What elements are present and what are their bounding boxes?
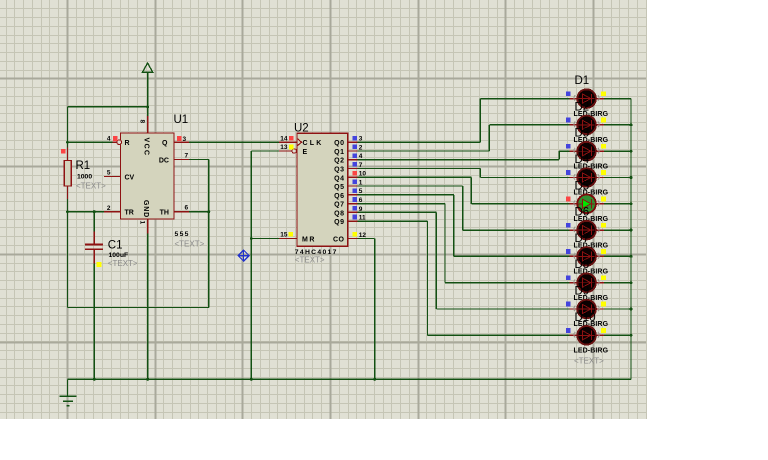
LED D8 anode state square xyxy=(566,275,571,280)
wire Q2 to D3 xyxy=(357,151,569,160)
U1 pin R state square xyxy=(113,136,118,141)
U2 pin number 1 xyxy=(359,179,363,186)
wire D5 cathode to bus xyxy=(604,202,633,205)
U2 pin name Q3 xyxy=(334,167,344,174)
C1 label xyxy=(108,239,123,251)
U2 pin CLK state square xyxy=(289,136,294,141)
LED D5 refdes label xyxy=(575,180,590,192)
U2 pin Q9 stub xyxy=(348,220,358,222)
U1 pin number 1 rotated xyxy=(139,221,146,225)
U2 pin name Q6 xyxy=(334,193,344,200)
U1 pin name GND rotated xyxy=(142,200,149,218)
U1 pin name VCC rotated xyxy=(143,138,150,157)
U2 pin number 5 xyxy=(359,188,363,195)
svg-text:<TEXT>: <TEXT> xyxy=(175,240,205,249)
U2 pin number 6 xyxy=(359,197,363,204)
svg-text:TH: TH xyxy=(160,210,169,217)
wire Q6 to D7 xyxy=(357,195,569,257)
LED D3 refdes label xyxy=(575,128,590,140)
U2 pin number 12 xyxy=(359,232,367,239)
wire reset net from left vertical to U1 pin R xyxy=(68,141,118,143)
U2 pin Q0 state square xyxy=(352,136,357,141)
svg-text:Q4: Q4 xyxy=(334,175,344,182)
junction TR node xyxy=(66,210,69,213)
R1 label xyxy=(76,160,91,172)
svg-text:LED-BIRG: LED-BIRG xyxy=(574,348,609,355)
wire LED cathode bus vertical xyxy=(630,99,632,380)
LED D6 part name xyxy=(574,242,609,249)
U2 pin Q1 state square xyxy=(352,145,357,150)
R1 value 1000 xyxy=(77,174,92,181)
svg-text:Q0: Q0 xyxy=(334,140,344,147)
U2 pin CO state square xyxy=(352,232,357,237)
svg-text:TR: TR xyxy=(125,210,134,217)
svg-text:1: 1 xyxy=(139,221,146,225)
svg-text:8: 8 xyxy=(139,120,146,124)
svg-text:Q8: Q8 xyxy=(334,210,344,217)
LED D2 refdes label xyxy=(575,101,590,113)
wire CO to ground rail xyxy=(357,239,374,380)
svg-text:D8: D8 xyxy=(575,259,590,271)
svg-text:Q6: Q6 xyxy=(334,193,344,200)
U2 pin number 11 xyxy=(359,215,366,222)
LED D10 refdes label xyxy=(575,312,596,324)
svg-text:CO: CO xyxy=(333,237,345,244)
U1 pin name R xyxy=(125,140,130,147)
U1 pin name TH xyxy=(160,210,169,217)
wire D8 cathode to bus xyxy=(604,281,633,284)
svg-text:D4: D4 xyxy=(575,154,590,166)
svg-text:U2: U2 xyxy=(294,122,309,134)
LED D9 anode state square xyxy=(566,302,571,307)
U2 pin Q2 state square xyxy=(352,153,357,158)
U2 pin MR stub xyxy=(279,238,297,240)
U1 refdes label xyxy=(174,114,189,126)
op-amp timer U1 NE555 body xyxy=(121,133,175,219)
U2 pin Q5 state square xyxy=(352,180,357,185)
U2 pin MR state square xyxy=(288,232,293,237)
svg-text:Q2: Q2 xyxy=(334,158,344,165)
wire C1 bottom to ground rail xyxy=(93,249,95,379)
LED D1 anode state square xyxy=(566,91,571,96)
LED D7 refdes label xyxy=(575,233,590,245)
LED D9 part name xyxy=(574,321,609,328)
LED D6 cathode state square xyxy=(601,223,606,228)
wire D10 cathode to bus xyxy=(604,334,633,337)
U2 pin number 15 xyxy=(280,232,288,239)
U2 pin number 7 xyxy=(359,162,363,169)
LED D3 anode state square xyxy=(566,144,571,149)
U2 pin Q8 state square xyxy=(352,206,357,211)
svg-text:555: 555 xyxy=(175,231,190,238)
U2 pin name Q8 xyxy=(334,210,344,217)
LED D10 anode state square xyxy=(566,328,571,333)
U2 pin CLK stub and clock chevron xyxy=(279,138,302,146)
U2 pin Q7 state square xyxy=(352,197,357,202)
U1 pin Q stub xyxy=(174,141,189,143)
U1 pin name DC xyxy=(159,158,169,165)
LED D2 cathode state square xyxy=(601,118,606,123)
wire DC to discharge loop xyxy=(68,160,209,308)
U2 pin number 13 xyxy=(280,144,288,151)
U2 pin Q4 state square xyxy=(352,171,357,176)
wire D9 cathode to bus xyxy=(604,308,633,311)
LED D3 cathode state square xyxy=(601,144,606,149)
U2 refdes label xyxy=(294,122,309,134)
svg-text:D7: D7 xyxy=(575,233,590,245)
wire ground rail xyxy=(68,378,632,380)
U1 pin number 3 xyxy=(183,136,187,143)
wire Q1 to D2 xyxy=(357,125,569,151)
LED D4 refdes label xyxy=(575,154,590,166)
LED D3 xyxy=(569,142,604,161)
U2 pin Q3 state square xyxy=(352,162,357,167)
U1 pin 1 stub to ground xyxy=(147,219,149,379)
U1 pin name TR xyxy=(125,210,134,217)
C1 text placeholder xyxy=(108,259,138,268)
svg-text:CV: CV xyxy=(125,175,135,182)
svg-text:Q9: Q9 xyxy=(334,219,344,226)
power symbol VCC arrow xyxy=(142,63,152,72)
LED D1 cathode state square xyxy=(601,91,606,96)
wire Q3 to D4 xyxy=(357,169,569,178)
U2 pin Q9 state square xyxy=(352,215,357,220)
U1 pin DC stub xyxy=(174,159,189,161)
svg-text:2: 2 xyxy=(107,205,111,212)
svg-text:15: 15 xyxy=(280,232,288,239)
svg-text:VCC: VCC xyxy=(143,138,150,157)
junction left vertical / reset net xyxy=(66,141,69,144)
svg-text:14: 14 xyxy=(280,135,288,142)
U1 pin name Q xyxy=(162,140,168,147)
U2 pin name Q2 xyxy=(334,158,344,165)
svg-text:R1: R1 xyxy=(76,160,91,172)
U1 pin TH stub xyxy=(174,211,189,213)
U2 pin E bubble and stub xyxy=(279,149,296,153)
U2 pin name Q4 xyxy=(334,175,344,182)
LED D4 anode state square xyxy=(566,170,571,175)
U2 pin name Q5 xyxy=(334,184,344,191)
U1 pin number 8 rotated xyxy=(139,120,146,124)
LED D9 refdes label xyxy=(575,286,590,298)
wire TH to discharge loop xyxy=(189,210,210,213)
U2 pin name Q7 xyxy=(334,202,344,209)
LED D2 anode state square xyxy=(566,118,571,123)
LED D6 anode state square xyxy=(566,223,571,228)
U2 pin name Q9 xyxy=(334,219,344,226)
wire C1 branch from TR node down to C1 top xyxy=(93,210,96,244)
wire left vertical from VCC rail down to R1 top xyxy=(67,107,69,160)
svg-text:Q3: Q3 xyxy=(334,167,344,174)
D10 text placeholder xyxy=(574,357,604,366)
LED D8 cathode state square xyxy=(601,275,606,280)
svg-text:D2: D2 xyxy=(575,101,590,113)
R1 text placeholder xyxy=(76,182,106,191)
LED D5 xyxy=(569,195,604,214)
svg-text:MR: MR xyxy=(302,237,316,244)
U1 pin Q state square xyxy=(177,136,182,141)
IC U2 74HC4017 body xyxy=(297,133,348,246)
U2 pin name Q0 xyxy=(334,140,344,147)
U2 pin Q3 stub xyxy=(348,168,358,170)
LED D6 xyxy=(569,221,604,240)
LED D7 cathode state square xyxy=(601,249,606,254)
U2 pin Q5 stub xyxy=(348,185,358,187)
wire U1 Q to U2 CLK xyxy=(189,141,279,143)
resistor R1 xyxy=(61,149,72,186)
LED D1 part name xyxy=(574,111,609,118)
capacitor C1 xyxy=(85,245,103,267)
wire VCC horizontal rail to left branch xyxy=(68,106,148,108)
wire D1 cathode to bus xyxy=(604,98,631,100)
U2 pin name E xyxy=(303,149,308,156)
wire Q9 to D10 xyxy=(357,221,569,335)
svg-text:<TEXT>: <TEXT> xyxy=(574,357,604,366)
LED D4 part name xyxy=(574,190,609,197)
wire Q0 to D1 xyxy=(357,99,569,143)
wire D7 cathode to bus xyxy=(604,255,633,258)
svg-text:D1: D1 xyxy=(575,75,590,87)
LED D8 xyxy=(569,273,604,292)
U1 pin name CV xyxy=(125,175,135,182)
U2 pin name CLK xyxy=(303,140,324,147)
LED D2 xyxy=(569,116,604,135)
svg-text:<TEXT>: <TEXT> xyxy=(295,256,325,265)
svg-text:4: 4 xyxy=(107,135,111,142)
svg-text:5: 5 xyxy=(107,170,111,177)
U2 pin CO stub xyxy=(348,238,358,240)
U2 pin Q2 stub xyxy=(348,159,358,161)
svg-text:R: R xyxy=(125,140,130,147)
svg-text:E: E xyxy=(303,149,308,156)
LED D7 part name xyxy=(574,269,609,276)
U1 pin number 7 xyxy=(185,153,189,160)
svg-text:1000: 1000 xyxy=(77,174,92,181)
LED D7 anode state square xyxy=(566,249,571,254)
U2 pin name Q1 xyxy=(334,149,344,156)
U2 pin Q4 stub xyxy=(348,176,358,178)
svg-text:D6: D6 xyxy=(575,207,590,219)
wire Q8 to D9 xyxy=(357,212,569,309)
LED D6 refdes label xyxy=(575,207,590,219)
U2 pin name MR xyxy=(302,237,316,244)
svg-text:D9: D9 xyxy=(575,286,590,298)
LED D4 cathode state square xyxy=(601,170,606,175)
U2 pin Q6 state square xyxy=(352,188,357,193)
U1 pin number 2 xyxy=(107,205,111,212)
wire left vertical down to DC/TH loop xyxy=(67,212,69,308)
wire D3 cathode to bus xyxy=(604,150,633,153)
LED D5 part name xyxy=(574,216,609,223)
LED D10 xyxy=(569,326,604,345)
svg-text:13: 13 xyxy=(280,144,288,151)
wire R1 bottom to TR node xyxy=(67,186,69,212)
U2 text placeholder xyxy=(295,256,325,265)
U2 pin number 14 xyxy=(280,135,288,142)
U1 pin R bubble xyxy=(117,140,122,145)
svg-text:Q5: Q5 xyxy=(334,184,344,191)
LED D1 refdes label xyxy=(575,75,590,87)
U2 pin number 3 xyxy=(359,136,363,143)
LED D3 part name xyxy=(574,163,609,170)
svg-text:3: 3 xyxy=(183,136,187,143)
junction at VCC tee xyxy=(146,105,149,108)
svg-text:GND: GND xyxy=(142,200,149,218)
U2 pin E state square xyxy=(289,145,294,150)
U1 device name 555 xyxy=(175,231,190,238)
LED D5 anode state square xyxy=(566,197,571,202)
LED D1 xyxy=(569,89,604,108)
svg-text:DC: DC xyxy=(159,158,169,165)
svg-text:C1: C1 xyxy=(108,239,123,251)
wire power arrow down to VCC junction and U1 pin 8 xyxy=(147,72,149,133)
U2 pin Q8 stub xyxy=(348,211,358,213)
wire MR to ground vertical xyxy=(250,237,279,240)
wire Q4 to D5 xyxy=(357,177,569,204)
LED D9 cathode state square xyxy=(601,302,606,307)
wire Q7 to D8 xyxy=(357,204,569,283)
svg-text:D10: D10 xyxy=(575,312,596,324)
ground xyxy=(59,379,76,405)
U2 pin Q6 stub xyxy=(348,194,358,196)
wire D2 cathode to bus xyxy=(604,123,633,126)
wire D4 cathode to bus xyxy=(604,176,633,179)
svg-text:100uF: 100uF xyxy=(109,252,129,259)
U2 pin number 4 xyxy=(359,153,363,160)
U2 pin number 9 xyxy=(359,206,363,213)
LED D2 part name xyxy=(574,137,609,144)
LED D8 part name xyxy=(574,295,609,302)
LED D10 part name xyxy=(574,348,609,355)
svg-text:D5: D5 xyxy=(575,180,590,192)
svg-text:<TEXT>: <TEXT> xyxy=(108,259,138,268)
LED D9 xyxy=(569,300,604,319)
wire TR node horizontal to U1 pin TR xyxy=(68,211,121,213)
U1 pin number 6 xyxy=(185,205,189,212)
svg-text:7: 7 xyxy=(185,153,189,160)
U2 pin number 2 xyxy=(359,144,363,151)
LED D4 xyxy=(569,168,604,187)
junctions on ground rail xyxy=(93,378,377,381)
LED D5 cathode state square xyxy=(601,197,606,202)
wire E and MR tied to ground rail xyxy=(251,151,279,379)
C1 value 100uF xyxy=(109,252,129,259)
U1 pin number 5 xyxy=(107,170,111,177)
origin marker xyxy=(238,250,249,261)
U1 pin CV stub xyxy=(104,176,121,178)
wire Q5 to D6 xyxy=(357,186,569,230)
svg-text:Q: Q xyxy=(162,140,168,147)
svg-text:U1: U1 xyxy=(174,114,189,126)
LED D7 xyxy=(569,247,604,266)
svg-text:CLK: CLK xyxy=(303,140,324,147)
U2 pin number 10 xyxy=(359,171,367,178)
svg-text:Q7: Q7 xyxy=(334,202,344,209)
wire D6 cathode to bus xyxy=(604,229,633,232)
U2 pin Q0 stub xyxy=(348,141,358,143)
svg-text:D3: D3 xyxy=(575,128,590,140)
svg-text:Q1: Q1 xyxy=(334,149,344,156)
svg-text:<TEXT>: <TEXT> xyxy=(76,182,106,191)
U2 pin name CO xyxy=(333,237,345,244)
U2 pin Q1 stub xyxy=(348,150,358,152)
svg-text:6: 6 xyxy=(185,205,189,212)
U2 device name 74HC4017 xyxy=(295,249,338,256)
U1 text placeholder xyxy=(175,240,205,249)
U2 pin Q7 stub xyxy=(348,203,358,205)
U1 pin number 4 xyxy=(107,135,111,142)
LED D10 cathode state square xyxy=(601,328,606,333)
LED D8 refdes label xyxy=(575,259,590,271)
